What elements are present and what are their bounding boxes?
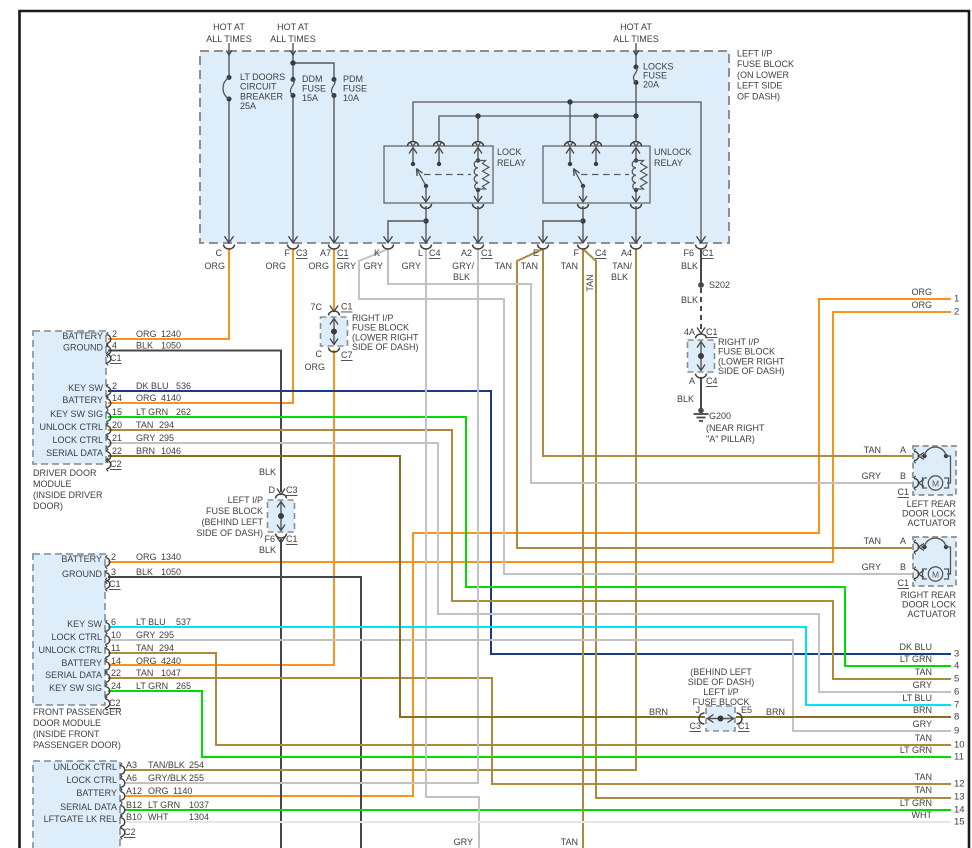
svg-text:C1: C1 (341, 302, 353, 312)
svg-text:1037: 1037 (189, 800, 209, 810)
svg-text:F: F (285, 248, 291, 258)
svg-text:4A: 4A (684, 327, 695, 337)
svg-text:ORG: ORG (308, 261, 329, 271)
svg-text:TAN: TAN (915, 772, 932, 782)
svg-text:LOCK CTRL: LOCK CTRL (51, 632, 102, 642)
svg-text:OF DASH): OF DASH) (737, 91, 780, 101)
svg-text:FUSE BLOCK: FUSE BLOCK (718, 347, 775, 357)
svg-text:C: C (316, 349, 323, 359)
svg-text:BLK: BLK (259, 467, 276, 477)
svg-text:ORG: ORG (148, 786, 169, 796)
svg-text:F6: F6 (264, 534, 275, 544)
svg-text:6: 6 (954, 687, 959, 698)
svg-text:B: B (900, 562, 906, 572)
svg-text:265: 265 (176, 681, 191, 691)
svg-text:TAN: TAN (585, 274, 595, 291)
svg-text:GRY: GRY (402, 261, 421, 271)
svg-text:4: 4 (112, 341, 117, 351)
svg-text:A2: A2 (461, 248, 472, 258)
svg-text:BRN: BRN (649, 707, 668, 717)
svg-text:22: 22 (111, 668, 121, 678)
svg-text:WHT: WHT (912, 810, 933, 820)
svg-text:"A" PILLAR): "A" PILLAR) (706, 434, 755, 444)
svg-text:(ON LOWER: (ON LOWER (737, 70, 790, 80)
svg-text:GRY: GRY (136, 433, 155, 443)
svg-text:ACTUATOR: ACTUATOR (907, 609, 956, 619)
svg-text:BLK: BLK (677, 394, 694, 404)
svg-text:LT GRN: LT GRN (136, 681, 168, 691)
svg-text:C7: C7 (341, 350, 353, 360)
svg-text:LT BLU: LT BLU (902, 693, 932, 703)
svg-text:B: B (900, 471, 906, 481)
svg-text:FUSE BLOCK: FUSE BLOCK (206, 506, 263, 516)
svg-text:294: 294 (159, 420, 174, 430)
svg-text:20A: 20A (643, 79, 659, 89)
svg-text:3: 3 (954, 649, 959, 660)
svg-text:C1: C1 (897, 487, 909, 497)
svg-text:C1: C1 (110, 353, 122, 363)
svg-text:KEY SW SIG: KEY SW SIG (50, 409, 103, 419)
svg-text:6: 6 (111, 617, 116, 627)
svg-text:2: 2 (111, 552, 116, 562)
svg-text:SERIAL DATA: SERIAL DATA (60, 802, 117, 812)
svg-text:F6: F6 (683, 248, 694, 258)
svg-text:A6: A6 (126, 773, 137, 783)
svg-text:C1: C1 (897, 578, 909, 588)
svg-text:ORG: ORG (204, 261, 225, 271)
svg-text:BATTERY: BATTERY (61, 554, 102, 564)
svg-text:SERIAL DATA: SERIAL DATA (46, 448, 103, 458)
svg-text:ORG: ORG (136, 656, 157, 666)
svg-text:GRY: GRY (454, 837, 473, 847)
svg-text:M: M (932, 479, 939, 489)
svg-text:DOOR MODULE: DOOR MODULE (33, 718, 101, 728)
svg-text:C2: C2 (124, 827, 136, 837)
svg-text:C4: C4 (429, 248, 441, 258)
svg-text:HOT AT: HOT AT (620, 22, 652, 32)
svg-text:DDM: DDM (302, 74, 323, 84)
svg-text:C1: C1 (702, 248, 714, 258)
svg-text:11: 11 (954, 752, 964, 763)
svg-text:(LOWER RIGHT: (LOWER RIGHT (718, 356, 785, 366)
svg-text:L: L (418, 248, 423, 258)
svg-text:ORG: ORG (911, 300, 932, 310)
svg-text:FUSE BLOCK: FUSE BLOCK (352, 323, 409, 333)
svg-text:BLK: BLK (681, 295, 698, 305)
svg-text:LT BLU: LT BLU (136, 617, 166, 627)
svg-text:LEFT I/P: LEFT I/P (703, 687, 738, 697)
svg-text:TAN: TAN (561, 837, 578, 847)
svg-text:(LOWER RIGHT: (LOWER RIGHT (352, 332, 419, 342)
svg-text:LOCK: LOCK (497, 147, 522, 157)
svg-text:5: 5 (954, 674, 959, 685)
svg-text:K: K (374, 248, 380, 258)
svg-text:(BEHIND LEFT: (BEHIND LEFT (690, 667, 752, 677)
svg-text:9: 9 (954, 726, 959, 737)
svg-text:ALL TIMES: ALL TIMES (206, 34, 252, 44)
svg-text:1050: 1050 (161, 341, 181, 351)
svg-text:C4: C4 (706, 376, 718, 386)
svg-text:C3: C3 (296, 248, 308, 258)
svg-text:LEFT SIDE: LEFT SIDE (737, 81, 782, 91)
svg-text:10: 10 (954, 740, 965, 751)
svg-text:ORG: ORG (136, 329, 157, 339)
svg-text:D: D (269, 485, 276, 495)
svg-text:LT GRN: LT GRN (148, 800, 180, 810)
svg-text:SIDE OF DASH): SIDE OF DASH) (352, 342, 419, 352)
svg-text:GRY: GRY (862, 562, 881, 572)
svg-text:14: 14 (112, 393, 122, 403)
svg-text:295: 295 (159, 630, 174, 640)
svg-text:C1: C1 (481, 248, 493, 258)
svg-text:4140: 4140 (161, 393, 181, 403)
svg-text:E: E (533, 248, 539, 258)
svg-text:DOOR LOCK: DOOR LOCK (902, 509, 956, 519)
svg-text:FUSE BLOCK: FUSE BLOCK (737, 59, 794, 69)
svg-text:15A: 15A (302, 93, 318, 103)
svg-text:KEY SW SIG: KEY SW SIG (49, 683, 102, 693)
svg-text:BLK: BLK (611, 272, 628, 282)
svg-text:UNLOCK CTRL: UNLOCK CTRL (38, 645, 102, 655)
svg-text:294: 294 (159, 643, 174, 653)
svg-text:RELAY: RELAY (497, 158, 526, 168)
svg-text:1050: 1050 (161, 567, 181, 577)
svg-text:TAN: TAN (915, 733, 932, 743)
svg-text:A: A (689, 376, 695, 386)
svg-text:C: C (216, 248, 223, 258)
svg-text:J: J (696, 705, 701, 715)
svg-text:KEY SW: KEY SW (67, 619, 102, 629)
svg-text:DOOR): DOOR) (33, 501, 63, 511)
svg-text:254: 254 (189, 760, 204, 770)
svg-text:DOOR LOCK: DOOR LOCK (902, 600, 956, 610)
svg-text:LT GRN: LT GRN (136, 407, 168, 417)
svg-text:FRONT PASSENGER: FRONT PASSENGER (33, 707, 122, 717)
svg-text:RIGHT REAR: RIGHT REAR (901, 590, 957, 600)
svg-text:ALL TIMES: ALL TIMES (613, 34, 659, 44)
svg-text:TAN: TAN (561, 261, 578, 271)
svg-text:BLK: BLK (136, 341, 153, 351)
svg-text:B10: B10 (126, 812, 142, 822)
svg-text:DK BLU: DK BLU (899, 642, 932, 652)
svg-text:MODULE: MODULE (33, 479, 72, 489)
svg-text:PASSENGER DOOR): PASSENGER DOOR) (33, 740, 121, 750)
svg-text:1: 1 (954, 294, 959, 305)
svg-text:TAN/BLK: TAN/BLK (148, 760, 185, 770)
svg-text:1140: 1140 (173, 786, 192, 796)
svg-text:BLK: BLK (453, 272, 470, 282)
svg-text:255: 255 (189, 773, 204, 783)
svg-text:BATTERY: BATTERY (61, 658, 102, 668)
svg-text:TAN: TAN (136, 643, 153, 653)
svg-text:C4: C4 (595, 248, 607, 258)
svg-text:GRY: GRY (364, 261, 383, 271)
svg-text:RIGHT I/P: RIGHT I/P (352, 313, 393, 323)
svg-text:21: 21 (112, 433, 122, 443)
svg-text:GRY: GRY (913, 680, 932, 690)
svg-text:C1: C1 (738, 721, 750, 731)
svg-text:GRY/BLK: GRY/BLK (148, 773, 187, 783)
svg-text:RIGHT I/P: RIGHT I/P (718, 337, 759, 347)
svg-text:GRY/: GRY/ (452, 261, 474, 271)
svg-text:7: 7 (954, 700, 959, 711)
svg-text:8: 8 (954, 712, 959, 723)
svg-text:BATTERY: BATTERY (62, 331, 103, 341)
svg-text:LFTGATE LK REL: LFTGATE LK REL (44, 814, 117, 824)
svg-text:(BEHIND LEFT: (BEHIND LEFT (201, 517, 263, 527)
svg-text:25A: 25A (240, 101, 256, 111)
svg-text:11: 11 (111, 643, 120, 653)
svg-text:LT DOORS: LT DOORS (240, 72, 285, 82)
svg-text:24: 24 (111, 681, 121, 691)
svg-text:LT GRN: LT GRN (900, 798, 932, 808)
svg-text:C3: C3 (689, 721, 701, 731)
svg-text:TAN: TAN (495, 261, 512, 271)
svg-text:BATTERY: BATTERY (62, 395, 103, 405)
svg-text:TAN: TAN (136, 668, 153, 678)
svg-text:TAN: TAN (864, 445, 881, 455)
svg-text:15: 15 (954, 817, 965, 828)
svg-text:G200: G200 (709, 411, 731, 421)
svg-text:1340: 1340 (161, 552, 181, 562)
svg-text:C3: C3 (286, 485, 298, 495)
svg-text:GRY: GRY (337, 261, 356, 271)
svg-text:TAN: TAN (864, 536, 881, 546)
svg-text:BLK: BLK (681, 261, 698, 271)
svg-text:HOT AT: HOT AT (213, 22, 245, 32)
svg-text:C2: C2 (110, 459, 122, 469)
svg-text:FUSE: FUSE (343, 84, 367, 94)
svg-text:DK BLU: DK BLU (136, 381, 169, 391)
svg-text:GROUND: GROUND (62, 569, 102, 579)
svg-text:LOCK CTRL: LOCK CTRL (66, 775, 117, 785)
svg-text:(NEAR RIGHT: (NEAR RIGHT (706, 423, 765, 433)
svg-text:CIRCUIT: CIRCUIT (240, 82, 277, 92)
svg-text:C1: C1 (109, 579, 121, 589)
svg-text:A: A (900, 536, 906, 546)
svg-text:A7: A7 (320, 248, 331, 258)
svg-text:RELAY: RELAY (654, 158, 683, 168)
svg-text:4240: 4240 (161, 656, 181, 666)
svg-text:M: M (932, 570, 939, 580)
svg-text:ORG: ORG (911, 287, 932, 297)
svg-text:(INSIDE FRONT: (INSIDE FRONT (33, 729, 100, 739)
svg-text:PDM: PDM (343, 74, 363, 84)
svg-text:537: 537 (176, 617, 191, 627)
svg-text:BLK: BLK (259, 545, 276, 555)
svg-text:A12: A12 (126, 786, 142, 796)
svg-text:SIDE OF DASH): SIDE OF DASH) (718, 366, 785, 376)
svg-text:DRIVER DOOR: DRIVER DOOR (33, 468, 97, 478)
svg-text:FUSE: FUSE (302, 84, 326, 94)
svg-text:GRY: GRY (913, 719, 932, 729)
svg-text:LEFT REAR: LEFT REAR (907, 499, 957, 509)
svg-text:C1: C1 (706, 327, 718, 337)
svg-text:2: 2 (112, 329, 117, 339)
svg-text:GRY: GRY (862, 471, 881, 481)
svg-text:HOT AT: HOT AT (277, 22, 309, 32)
svg-text:LT GRN: LT GRN (900, 745, 932, 755)
svg-text:ALL TIMES: ALL TIMES (270, 34, 316, 44)
svg-text:UNLOCK CTRL: UNLOCK CTRL (53, 762, 117, 772)
svg-text:GROUND: GROUND (63, 343, 103, 353)
svg-text:ACTUATOR: ACTUATOR (907, 518, 956, 528)
svg-text:LOCK CTRL: LOCK CTRL (52, 435, 103, 445)
svg-text:C1: C1 (286, 534, 298, 544)
svg-text:BRN: BRN (136, 446, 155, 456)
svg-text:4: 4 (954, 661, 959, 672)
svg-text:SERIAL DATA: SERIAL DATA (45, 670, 102, 680)
svg-text:A3: A3 (126, 760, 137, 770)
svg-text:(INSIDE DRIVER: (INSIDE DRIVER (33, 490, 103, 500)
svg-text:1240: 1240 (161, 329, 181, 339)
svg-text:10A: 10A (343, 93, 359, 103)
svg-text:13: 13 (954, 792, 965, 803)
svg-text:S202: S202 (709, 280, 730, 290)
svg-text:LT GRN: LT GRN (900, 654, 932, 664)
svg-text:BATTERY: BATTERY (76, 788, 117, 798)
svg-text:ORG: ORG (265, 261, 286, 271)
svg-text:GRY: GRY (136, 630, 155, 640)
svg-text:1046: 1046 (161, 446, 181, 456)
svg-text:TAN: TAN (136, 420, 153, 430)
svg-text:SIDE OF DASH): SIDE OF DASH) (196, 528, 263, 538)
svg-text:295: 295 (159, 433, 174, 443)
svg-text:BLK: BLK (136, 567, 153, 577)
svg-text:E5: E5 (741, 705, 752, 715)
svg-text:A4: A4 (621, 248, 632, 258)
svg-text:1047: 1047 (161, 668, 181, 678)
svg-text:F: F (574, 248, 580, 258)
svg-text:1304: 1304 (189, 812, 209, 822)
svg-text:2: 2 (112, 381, 117, 391)
svg-text:LEFT I/P: LEFT I/P (737, 49, 772, 59)
svg-text:14: 14 (954, 805, 965, 816)
svg-text:SIDE OF DASH): SIDE OF DASH) (688, 677, 755, 687)
svg-text:ORG: ORG (136, 552, 157, 562)
svg-text:TAN/: TAN/ (612, 261, 632, 271)
svg-text:10: 10 (111, 630, 121, 640)
svg-text:7C: 7C (310, 302, 322, 312)
svg-text:UNLOCK: UNLOCK (654, 147, 692, 157)
svg-text:262: 262 (176, 407, 191, 417)
svg-text:A: A (900, 445, 906, 455)
svg-text:20: 20 (112, 420, 122, 430)
svg-text:TAN: TAN (915, 785, 932, 795)
svg-text:BREAKER: BREAKER (240, 91, 284, 101)
svg-text:TAN: TAN (915, 667, 932, 677)
svg-text:BRN: BRN (766, 707, 785, 717)
svg-text:LEFT I/P: LEFT I/P (228, 495, 263, 505)
svg-text:C1: C1 (337, 248, 349, 258)
svg-text:536: 536 (176, 381, 191, 391)
svg-text:UNLOCK CTRL: UNLOCK CTRL (39, 422, 103, 432)
svg-text:2: 2 (954, 307, 959, 318)
svg-text:12: 12 (954, 779, 965, 790)
svg-text:WHT: WHT (148, 812, 169, 822)
svg-text:ORG: ORG (304, 362, 325, 372)
svg-text:B12: B12 (126, 800, 142, 810)
svg-text:14: 14 (111, 656, 121, 666)
svg-text:KEY SW: KEY SW (68, 383, 103, 393)
svg-text:3: 3 (111, 567, 116, 577)
svg-text:ORG: ORG (136, 393, 157, 403)
svg-text:TAN: TAN (521, 261, 538, 271)
svg-text:BRN: BRN (913, 705, 932, 715)
svg-text:15: 15 (112, 407, 122, 417)
svg-text:22: 22 (112, 446, 122, 456)
